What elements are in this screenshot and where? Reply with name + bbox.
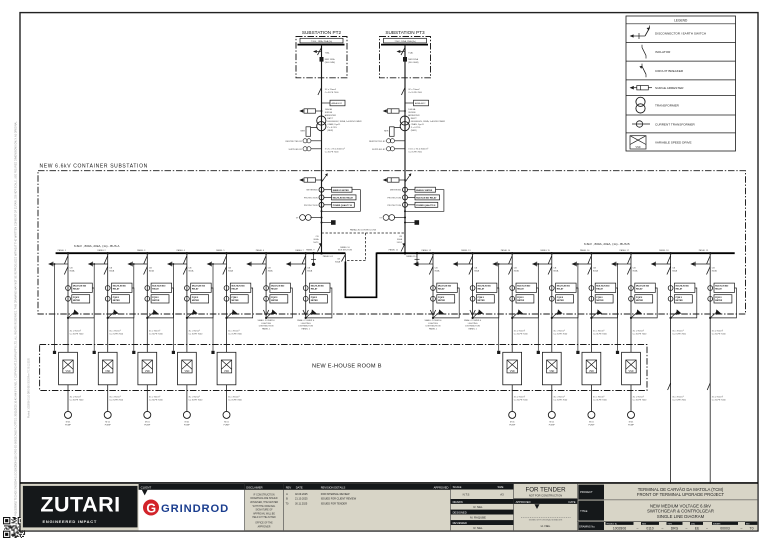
svg-text:PANEL 9: PANEL 9 — [306, 248, 315, 251]
svg-text:PANEL 10: PANEL 10 — [340, 246, 350, 249]
svg-text:PANEL 15: PANEL 15 — [540, 249, 550, 252]
panel 19 feeder (spare cable) — [690, 252, 736, 319]
panel 13 feeder (aux) — [453, 252, 499, 319]
svg-text:ZUTARI: ZUTARI — [40, 493, 120, 517]
svg-text:ENGINEERED IMPACT: ENGINEERED IMPACT — [43, 519, 98, 524]
zutari logo — [23, 486, 138, 528]
svg-text:DRAWN: DRAWN — [453, 500, 463, 504]
legend current transformer symbol — [632, 123, 650, 125]
svg-text:G: G — [146, 501, 156, 515]
svg-text:–: – — [706, 526, 708, 530]
svg-text:PANEL 13: PANEL 13 — [461, 249, 471, 252]
svg-text:SIGNED WITH ORIGINAL SIGNATURE: SIGNED WITH ORIGINAL SIGNATURE — [529, 518, 563, 521]
legend box — [626, 16, 736, 151]
svg-text:21.10.2025: 21.10.2025 — [295, 498, 308, 501]
svg-text:DRG: DRG — [671, 526, 679, 530]
legend transformer symbol — [636, 97, 645, 106]
svg-text:IF CONSTRUCTION: IF CONSTRUCTION — [253, 494, 275, 496]
svg-text:00003: 00003 — [720, 526, 730, 530]
svg-text:REVISION DETAILS: REVISION DETAILS — [321, 485, 346, 489]
svg-text:PANEL 2: PANEL 2 — [97, 249, 106, 252]
svg-text:6.6kV , 800A, 20kA, (1s) - BUS: 6.6kV , 800A, 20kA, (1s) - BUS B — [584, 242, 630, 246]
panel 7 feeder (aux) — [286, 252, 332, 319]
svg-text:HELD AT THE ZUTARI: HELD AT THE ZUTARI — [252, 516, 276, 519]
incomer 2 from substation PT3 — [369, 37, 446, 255]
svg-text:DRAWINGS ARE ISSUED: DRAWINGS ARE ISSUED — [251, 497, 278, 500]
svg-text:SIGNATURE OF: SIGNATURE OF — [255, 509, 273, 512]
svg-text:TRANSFORMER: TRANSFORMER — [655, 104, 680, 108]
panel 2 feeder — [88, 252, 134, 319]
svg-text:SUBSTATION PT2: SUBSTATION PT2 — [302, 30, 342, 35]
svg-text:PANEL 11: PANEL 11 — [389, 248, 399, 251]
svg-text:0110: 0110 — [646, 526, 653, 530]
svg-text:DATE: DATE — [569, 500, 576, 504]
svg-text:PROJECT: PROJECT — [580, 490, 593, 494]
bus B earth stub — [416, 253, 418, 265]
svg-text:APPROVED: APPROVED — [434, 485, 449, 489]
svg-text:DRAWING No.: DRAWING No. — [579, 525, 595, 528]
svg-text:PANEL11-I2: PANEL11-I2 — [406, 255, 418, 258]
panel 15 feeder — [532, 252, 578, 319]
svg-text:FOR INTERNAL REVIEW: FOR INTERNAL REVIEW — [321, 493, 350, 496]
svg-text:M. RAQUBE: M. RAQUBE — [470, 515, 486, 519]
scale / drawn / designed / reviewed — [451, 484, 514, 490]
incomer 1 from substation PT2 — [285, 37, 362, 255]
panel 4 feeder — [167, 252, 213, 319]
legend circuit breaker symbol — [641, 64, 643, 67]
svg-text:FRONT OF TERMINAL UPGRADE PROJ: FRONT OF TERMINAL UPGRADE PROJECT — [637, 492, 725, 497]
container substation dash-dot enclosure — [38, 171, 746, 314]
svg-text:–: – — [686, 526, 688, 530]
busbar B — [377, 252, 735, 254]
svg-text:–: – — [741, 526, 743, 530]
parallel control dashed link — [322, 232, 406, 234]
svg-text:OFFICE OF THE: OFFICE OF THE — [255, 523, 273, 525]
svg-text:SURGE ARRESTER: SURGE ARRESTER — [655, 86, 684, 90]
svg-text:–: – — [662, 526, 664, 530]
svg-text:SCALE: SCALE — [453, 485, 462, 489]
panel 17 feeder — [611, 252, 657, 319]
svg-text:PANEL 1: PANEL 1 — [58, 249, 67, 252]
panel 1 feeder — [48, 252, 94, 319]
svg-text:NOT FOR CONSTRUCTION: NOT FOR CONSTRUCTION — [529, 494, 562, 498]
svg-text:UNSIGNED, THE MASTER: UNSIGNED, THE MASTER — [250, 501, 279, 504]
svg-text:FOR TENDER: FOR TENDER — [525, 487, 566, 494]
svg-text:N.T.S: N.T.S — [463, 492, 470, 496]
svg-text:DISCONNECTOR / EARTH SWITCH: DISCONNECTOR / EARTH SWITCH — [655, 32, 706, 36]
svg-text:REVIEWED: REVIEWED — [453, 521, 467, 525]
legend VSD symbol — [630, 136, 646, 149]
drawing number cell — [578, 522, 604, 530]
project cell — [578, 485, 604, 500]
svg-text:ISOLATOR: ISOLATOR — [655, 50, 671, 54]
grindrod logo — [143, 500, 159, 516]
svg-text:PANEL 6: PANEL 6 — [256, 249, 265, 252]
svg-text:APPROVED: APPROVED — [516, 500, 531, 504]
svg-text:PANEL 12: PANEL 12 — [422, 249, 432, 252]
svg-text:EE: EE — [695, 526, 700, 530]
panel 5 feeder — [207, 252, 253, 319]
svg-text:PANEL 16: PANEL 16 — [580, 249, 590, 252]
legend disconnector symbol — [633, 35, 645, 37]
svg-text:PANEL 14: PANEL 14 — [501, 249, 511, 252]
svg-text:SUBSTATION PT3: SUBSTATION PT3 — [385, 30, 425, 35]
svg-text:1002806: 1002806 — [613, 526, 626, 530]
title block top rule — [20, 482, 758, 484]
title block — [20, 483, 758, 530]
svg-text:TITLE: TITLE — [580, 509, 588, 513]
svg-text:R. NEL: R. NEL — [473, 505, 482, 509]
svg-text:PANEL 3: PANEL 3 — [137, 249, 146, 252]
svg-text:ISSUED FOR TENDER: ISSUED FOR TENDER — [321, 502, 347, 505]
panel 18 feeder (spare cable) — [651, 252, 697, 319]
panel 14 feeder — [492, 252, 538, 319]
svg-text:LEGEND: LEGEND — [674, 19, 688, 23]
svg-text:PANEL 19: PANEL 19 — [699, 249, 709, 252]
column dividers — [245, 484, 758, 530]
svg-text:SINGLE LINE DIAGRAM: SINGLE LINE DIAGRAM — [657, 514, 705, 519]
svg-text:NEW E-HOUSE ROOM B: NEW E-HOUSE ROOM B — [312, 364, 382, 370]
svg-text:CIRCUIT BREAKER: CIRCUIT BREAKER — [655, 69, 684, 73]
svg-text:NEW 6.6kV CONTAINER SUBSTATION: NEW 6.6kV CONTAINER SUBSTATION — [40, 163, 148, 169]
svg-text:PANEL 18: PANEL 18 — [659, 249, 669, 252]
svg-text:WITH THE ORIGINAL: WITH THE ORIGINAL — [253, 505, 276, 508]
disclaimer cell — [245, 484, 284, 490]
busbar A — [56, 252, 346, 254]
legend surge arrester symbol — [630, 86, 634, 90]
svg-text:CURRENT TRANSFORMER: CURRENT TRANSFORMER — [655, 122, 696, 126]
revision table — [284, 484, 451, 490]
panel 3 feeder — [127, 252, 173, 319]
svg-text:30.11.2025: 30.11.2025 — [295, 502, 308, 505]
title cell — [578, 501, 604, 521]
svg-text:CLIENT: CLIENT — [141, 485, 152, 489]
svg-text:DESIGNED: DESIGNED — [453, 510, 467, 514]
svg-text:PANEL 17: PANEL 17 — [620, 249, 630, 252]
svg-text:02.09.2025: 02.09.2025 — [295, 493, 308, 496]
svg-text:NEW MEDIUM VOLTAGE 6.6kV: NEW MEDIUM VOLTAGE 6.6kV — [650, 503, 711, 508]
client cell — [139, 484, 245, 530]
svg-text:SIZE: SIZE — [498, 485, 504, 489]
svg-text:REV: REV — [286, 485, 292, 489]
wire: bus section link — [345, 253, 376, 298]
svg-text:NUMBER: NUMBER — [713, 523, 721, 525]
legend isolator symbol — [641, 45, 643, 48]
svg-text:PARALLEL/CONTROL LINK: PARALLEL/CONTROL LINK — [350, 229, 377, 232]
svg-text:P:\1002806\2 TECH\20 ENG\204 E: P:\1002806\2 TECH\20 ENG\204 ELEC\100280… — [15, 121, 18, 516]
svg-text:APPROVER: APPROVER — [258, 525, 271, 528]
panel 6 feeder (aux) — [246, 252, 292, 319]
QR code — [3, 517, 25, 538]
svg-text:PANEL 7: PANEL 7 — [295, 249, 304, 252]
svg-text:R. NEL: R. NEL — [473, 526, 482, 530]
svg-text:GRINDROD: GRINDROD — [161, 503, 229, 515]
svg-text:H. NEL: H. NEL — [541, 524, 551, 528]
svg-text:TERMINAL DE CARVÃO DA MATOLA (: TERMINAL DE CARVÃO DA MATOLA (TCM) — [638, 487, 724, 492]
svg-text:VSD: VSD — [636, 146, 641, 149]
svg-text:PANEL 4: PANEL 4 — [177, 249, 186, 252]
svg-text:T0: T0 — [750, 526, 754, 530]
e-house room B dash-dot enclosure — [40, 345, 647, 391]
svg-text:APPROVAL WILL BE: APPROVAL WILL BE — [253, 512, 275, 515]
svg-text:Plotted: 1002806-0110-DRG-EE-0: Plotted: 1002806-0110-DRG-EE-00003 Rev T… — [28, 357, 31, 418]
svg-text:PROJECT No: PROJECT No — [607, 523, 618, 525]
svg-text:BUS SECTION: BUS SECTION — [338, 250, 353, 252]
svg-text:–: – — [637, 526, 639, 530]
svg-text:PANEL9-I1: PANEL9-I1 — [323, 255, 334, 258]
svg-text:PANEL 5: PANEL 5 — [216, 249, 225, 252]
svg-text:DATE: DATE — [296, 485, 303, 489]
svg-text:800A: 800A — [335, 260, 340, 263]
svg-text:A3: A3 — [500, 492, 504, 496]
svg-text:6.6kV , 800A, 20kA, (1s) - BUS: 6.6kV , 800A, 20kA, (1s) - BUS A — [74, 244, 120, 248]
bus A earth stub — [313, 253, 315, 265]
svg-text:ISSUED FOR CLIENT REVIEW: ISSUED FOR CLIENT REVIEW — [321, 498, 357, 501]
svg-text:VARIABLE SPEED DRIVE: VARIABLE SPEED DRIVE — [655, 140, 692, 144]
panel 16 feeder — [572, 252, 618, 319]
panel 12 feeder (aux) — [413, 252, 459, 319]
svg-text:DISCLAIMER: DISCLAIMER — [246, 485, 262, 489]
svg-text:SWITCHGEAR & CONTROLGEAR: SWITCHGEAR & CONTROLGEAR — [647, 509, 714, 514]
